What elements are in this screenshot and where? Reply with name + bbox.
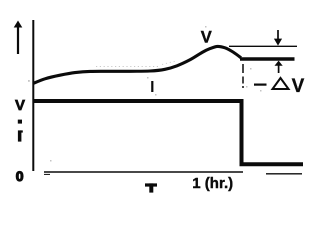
svg-text:V: V: [15, 97, 25, 114]
svg-text:0: 0: [16, 168, 24, 184]
svg-text:V: V: [292, 76, 305, 97]
svg-text:1 (hr.): 1 (hr.): [192, 175, 233, 192]
svg-text:V: V: [201, 29, 212, 47]
